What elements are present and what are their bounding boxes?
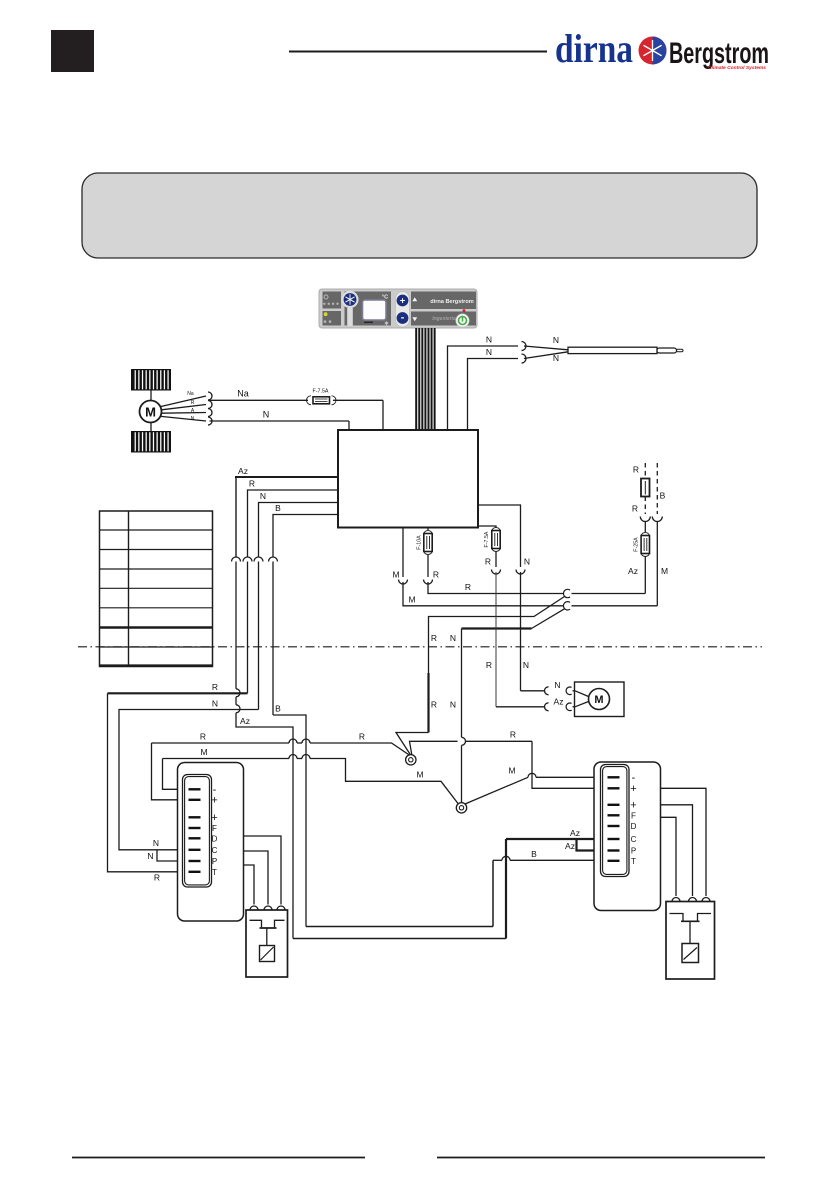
wire M ring2 to right unit [465, 766, 607, 805]
wire M feed to ring terminal 2 [163, 747, 459, 804]
svg-text:R: R [510, 730, 516, 740]
panel arrow up [412, 297, 417, 301]
svg-text:N: N [553, 353, 559, 363]
condenser unit right [594, 762, 661, 911]
wire R feed to ring terminal 1 [152, 732, 411, 800]
inline connector upper [563, 589, 570, 597]
grey rounded info box [82, 173, 757, 258]
svg-text:M: M [408, 595, 415, 605]
wire M from B [657, 522, 668, 606]
control unit box [338, 430, 478, 528]
svg-text:T: T [631, 857, 636, 866]
svg-text:P: P [212, 857, 217, 866]
footer rule right [437, 1157, 765, 1159]
svg-text:N: N [263, 410, 270, 420]
svg-text:P: P [631, 847, 636, 856]
ring terminal 1 [406, 755, 416, 765]
svg-text:C: C [631, 835, 637, 844]
wire N lower drop [119, 562, 259, 862]
svg-text:M: M [661, 566, 668, 576]
svg-text:M: M [416, 770, 423, 780]
svg-text:B: B [531, 849, 537, 859]
left unit outputs to relay 1 [244, 836, 282, 905]
fuse F-25A [634, 522, 650, 557]
svg-text:R: R [465, 582, 471, 592]
svg-text:R: R [154, 873, 160, 883]
svg-text:Az: Az [570, 828, 580, 838]
svg-text:R: R [249, 479, 255, 489]
temperature probe sensor [568, 347, 683, 353]
svg-text:R: R [212, 682, 218, 692]
wire R to condenser motor [478, 526, 545, 707]
header rule line [289, 51, 547, 53]
svg-text:F-7.5A: F-7.5A [313, 389, 329, 395]
wire M connector to B wire [572, 605, 658, 607]
wire N sensor lower [468, 347, 519, 430]
motor fan-out wires with labels Na R A N [161, 391, 212, 425]
wire R ring1 to right unit [410, 730, 608, 789]
svg-text:N: N [450, 633, 456, 643]
svg-text:Ingenieria: Ingenieria [432, 316, 456, 322]
right unit terminal bars and labels [608, 772, 637, 866]
svg-text:R: R [486, 660, 492, 670]
panel arrow down [412, 317, 417, 321]
heater resistor block lower [131, 431, 171, 453]
evaporator unit left [178, 763, 244, 922]
svg-text:R: R [191, 400, 195, 406]
svg-text:R: R [632, 504, 638, 514]
wire R diagonal branch to ring terminal [396, 597, 565, 756]
svg-text:F: F [631, 811, 636, 820]
fuse F-7.5A blower feed [307, 389, 337, 405]
svg-text:R: R [633, 465, 639, 475]
svg-text:F: F [212, 824, 217, 833]
svg-text:R: R [431, 700, 437, 710]
wire R from control unit [248, 479, 339, 557]
svg-text:N: N [523, 660, 529, 670]
wire B dashed supply [657, 463, 665, 514]
motor M blower [140, 391, 162, 432]
svg-text:N: N [147, 851, 153, 861]
footer rule left [72, 1157, 365, 1159]
svg-text:R: R [431, 633, 437, 643]
svg-text:+: + [400, 296, 406, 307]
ribbon cable from panel to control unit [415, 328, 435, 430]
svg-text:Na: Na [237, 389, 249, 399]
svg-text:Climate Control Systems: Climate Control Systems [708, 65, 766, 71]
svg-text:B: B [275, 503, 281, 513]
svg-text:N: N [486, 335, 492, 345]
connector cups R B [640, 517, 662, 522]
wire B long feed to right unit [306, 849, 607, 927]
panel power button [456, 309, 469, 327]
inline connectors on four drops [232, 557, 278, 562]
right unit outputs to relay 2 [661, 788, 707, 896]
ring terminal 2 [456, 803, 466, 813]
svg-text:N: N [486, 347, 492, 357]
fuse F-10A [417, 528, 564, 594]
svg-text:+: + [630, 783, 636, 795]
header black square [51, 30, 94, 72]
panel brand text [430, 299, 474, 322]
svg-text:N: N [212, 699, 218, 709]
svg-text:°C: °C [382, 295, 388, 301]
svg-text:R: R [359, 732, 365, 742]
svg-text:Az: Az [628, 566, 638, 576]
wire Az connector to F-25A [572, 593, 646, 595]
condenser motor M [575, 682, 625, 717]
wire Az lower drop [236, 562, 293, 939]
panel plus minus buttons [396, 292, 410, 328]
svg-text:-: - [401, 312, 405, 324]
heater resistor block upper [131, 369, 171, 391]
svg-text:M: M [200, 747, 207, 757]
svg-text:dirna Bergstrom: dirna Bergstrom [430, 299, 474, 305]
svg-text:N: N [260, 491, 266, 501]
svg-text:R: R [200, 732, 206, 742]
wire N diagonal branch to ring terminal 2 [450, 609, 565, 803]
wire N blower return [210, 410, 350, 431]
svg-text:R: R [485, 557, 491, 567]
wire Az from fuse F-25A [628, 557, 645, 594]
svg-text:Az: Az [238, 466, 248, 476]
svg-text:Az: Az [554, 697, 564, 707]
svg-text:N: N [554, 680, 560, 690]
wire N sensor upper [448, 335, 519, 431]
svg-text:Az: Az [565, 841, 575, 851]
svg-text:dirna: dirna [555, 26, 633, 71]
svg-text:N: N [524, 557, 530, 567]
wire M below box [392, 528, 563, 606]
svg-text:R: R [433, 570, 439, 580]
inline connector lower [563, 602, 570, 610]
fuse main supply [641, 479, 650, 497]
svg-text:N: N [191, 416, 195, 422]
dash-dot separation line [78, 646, 762, 648]
wire N to condenser motor [478, 505, 545, 691]
svg-text:D: D [631, 822, 637, 831]
svg-text:B: B [275, 704, 281, 714]
svg-text:N: N [153, 838, 159, 848]
left unit terminal bars and labels [189, 784, 218, 877]
svg-text:B: B [660, 491, 666, 501]
wire R lower drop to thick feed [108, 562, 248, 883]
logo dirna Bergstrom [555, 26, 769, 71]
svg-text:+: + [211, 812, 217, 824]
wire Az from control unit [235, 466, 338, 557]
wire Az long feed to right unit [293, 828, 607, 939]
panel small indicator icons [323, 295, 339, 323]
svg-text:Az: Az [240, 716, 250, 726]
svg-text:M: M [145, 404, 156, 419]
relay 2 [666, 898, 715, 980]
panel snowflake button [341, 291, 358, 326]
svg-text:M: M [392, 570, 399, 580]
svg-text:F-25A: F-25A [634, 537, 640, 552]
wire R dashed supply [633, 463, 645, 479]
svg-text:F-7.5A: F-7.5A [484, 531, 490, 547]
legend table [100, 511, 213, 667]
svg-text:C: C [212, 846, 218, 855]
svg-text:Na: Na [187, 391, 194, 397]
sensor connectors [522, 335, 569, 363]
svg-text:D: D [212, 834, 218, 843]
wire B lower drop [273, 562, 306, 927]
wire N from control unit [259, 491, 339, 557]
svg-text:F-10A: F-10A [417, 535, 423, 550]
wire R dashed below fuse [632, 497, 645, 515]
svg-text:N: N [553, 335, 559, 345]
wire Na to fuse and control unit [210, 389, 384, 431]
control panel bezel [319, 289, 477, 328]
relay 1 [246, 906, 288, 977]
panel LCD display [363, 295, 389, 326]
svg-text:+: + [630, 799, 636, 811]
svg-text:T: T [212, 868, 217, 877]
svg-text:M: M [594, 694, 603, 706]
wire B from control unit [273, 503, 338, 557]
svg-text:+: + [211, 794, 217, 806]
svg-text:M: M [508, 766, 515, 776]
svg-text:N: N [450, 700, 456, 710]
condenser motor connectors [545, 680, 576, 711]
